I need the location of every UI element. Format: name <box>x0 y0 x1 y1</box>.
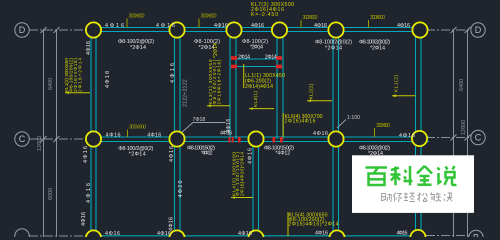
axis bubble B right (cut) <box>469 230 483 240</box>
KL3(1) underline <box>249 107 253 110</box>
svg-text:300X600: 300X600 <box>303 15 318 21</box>
rotated yellow block KL3(2) left of colC <box>208 59 223 104</box>
axis bubble B left (cut) <box>15 229 29 240</box>
svg-text:300X600: 300X600 <box>370 15 385 21</box>
svg-text:4Φ16: 4Φ16 <box>248 148 254 164</box>
axis D dashed line right <box>426 29 471 31</box>
yellow circle C-93 <box>86 131 101 146</box>
svg-text:*2Φ14: *2Φ14 <box>370 46 385 52</box>
解 <box>430 193 441 202</box>
column G <box>416 30 422 235</box>
svg-text:D: D <box>475 25 482 35</box>
olive 300X600 tick rowC bay1 <box>128 125 147 138</box>
yellow circle B-177 <box>169 230 184 240</box>
svg-text:300X600: 300X600 <box>129 14 145 20</box>
red marks beam row C <box>229 137 283 143</box>
svg-text:2Φ16Φ18+2Φ16): 2Φ16Φ18+2Φ16) <box>217 59 223 104</box>
svg-text:*2Φ14: *2Φ14 <box>325 46 342 52</box>
axis bubble C left <box>15 132 29 146</box>
svg-text:KL3(1): KL3(1) <box>253 91 259 107</box>
svg-text:4Φ18: 4Φ18 <box>105 71 111 88</box>
svg-text:2Φ16)4Φ16)*2Φ14: 2Φ16)4Φ16)*2Φ14 <box>289 222 339 228</box>
KL1(2) right underline <box>392 94 396 97</box>
yellow circle B-418 <box>410 230 425 240</box>
KL5 leader <box>287 212 289 236</box>
yellow circle C-177 <box>169 131 184 146</box>
svg-text:KL2(2): KL2(2) <box>309 83 315 99</box>
svg-text:2Φ16)4Φ20)*2Φ14: 2Φ16)4Φ20)*2Φ14 <box>239 152 245 196</box>
松 <box>417 193 427 202</box>
svg-text:4Φ16: 4Φ16 <box>251 23 264 29</box>
axis C dashed line left <box>29 138 91 140</box>
LL beam 1 <box>236 58 277 60</box>
svg-text:4Φ16: 4Φ16 <box>83 146 89 163</box>
axis bubble C right <box>471 130 485 144</box>
svg-text:6400: 6400 <box>459 79 465 91</box>
轻 <box>404 193 415 202</box>
dimension line left 2 <box>56 30 58 237</box>
dimension line right 1 <box>453 30 455 237</box>
yellow block KL6 <box>285 114 323 125</box>
svg-text:2122+2122: 2122+2122 <box>183 79 189 107</box>
svg-text:7Φ18: 7Φ18 <box>193 117 206 123</box>
科 <box>391 168 399 170</box>
yellow circle B-93 <box>86 230 101 240</box>
axis C dashed line right <box>426 137 471 139</box>
全 <box>417 166 425 174</box>
说 <box>438 168 440 171</box>
yellow circle C-419 <box>412 131 427 146</box>
KL4 underline <box>231 196 235 199</box>
yellow circle B-337 <box>329 230 344 240</box>
LL1 leader <box>243 64 245 88</box>
axis B dashed line right <box>426 235 469 237</box>
svg-text:4Φ16: 4Φ16 <box>397 23 410 29</box>
svg-text:4Φ16: 4Φ16 <box>397 231 408 237</box>
olive 300X600 tick top bay5 <box>369 15 386 28</box>
svg-text:12600: 12600 <box>37 136 43 151</box>
yellow circle B-256 <box>248 230 263 240</box>
svg-text:*2Φ14: *2Φ14 <box>250 45 263 51</box>
yellow circle C-256 <box>248 131 263 146</box>
axis D dashed line left <box>29 29 91 31</box>
svg-text:2Φ14: 2Φ14 <box>265 55 277 61</box>
svg-text:4Φ16: 4Φ16 <box>313 131 328 137</box>
beam row B (bottom, partly cut) <box>93 235 420 237</box>
svg-text:4Φ16: 4Φ16 <box>169 217 175 231</box>
yellow block LL1 <box>245 73 285 90</box>
svg-text:C: C <box>475 133 482 143</box>
red end marks LL beams <box>231 56 282 68</box>
LL beam 2 <box>233 66 280 68</box>
svg-text:D: D <box>19 25 26 35</box>
svg-text:4Φ16: 4Φ16 <box>315 231 328 237</box>
svg-text:4Φ16: 4Φ16 <box>314 23 327 29</box>
svg-text:6400: 6400 <box>48 78 54 90</box>
svg-text:4Φ16: 4Φ16 <box>399 133 415 139</box>
yellow circle D-279 <box>272 22 287 37</box>
svg-text:4Φ16: 4Φ16 <box>238 231 252 237</box>
watermark green text 百科全说 (hand-drawn strokes) <box>366 166 457 185</box>
yellow circle C-336 <box>328 131 343 146</box>
svg-text:2Φ16+2Φ14: 2Φ16+2Φ14 <box>78 58 84 92</box>
svg-text:1:100: 1:100 <box>347 115 360 121</box>
svg-text:300X600: 300X600 <box>129 125 146 131</box>
KL1 underline <box>65 91 69 94</box>
svg-text:4Φ16: 4Φ16 <box>105 231 120 237</box>
svg-text:*4Φ12: *4Φ12 <box>275 151 290 157</box>
svg-text:4Φ16: 4Φ16 <box>214 23 228 29</box>
svg-text:6000: 6000 <box>48 188 54 200</box>
axis B dashed line left <box>29 235 91 237</box>
watermark box <box>352 155 474 213</box>
olive 300X600 tick top bay2 <box>199 14 217 28</box>
dimension line left 1 <box>43 30 45 237</box>
yellow block KL5 bottom <box>289 213 339 228</box>
beam row D <box>93 28 420 32</box>
svg-text:4Φ16: 4Φ16 <box>226 119 232 133</box>
column B <box>175 30 181 235</box>
dim tick marks <box>41 27 471 142</box>
olive 300X600 tick rowC bay4 <box>375 123 391 137</box>
yellow circle D-234 <box>226 22 241 37</box>
svg-text:2Φ14: 2Φ14 <box>238 55 250 61</box>
你 <box>393 193 401 202</box>
svg-text:2Φ16)4Φ16: 2Φ16)4Φ16 <box>285 119 316 125</box>
yellow circle D-93 <box>86 22 101 37</box>
svg-text:B: B <box>473 233 479 237</box>
column C (upper half) <box>230 30 236 139</box>
svg-text:4Φ16: 4Φ16 <box>106 132 121 138</box>
svg-text:*2Φ14: *2Φ14 <box>213 43 219 58</box>
grey leader 7phi18 <box>181 123 226 134</box>
KL3(2) underline <box>207 105 211 108</box>
svg-text:K=-0.450: K=-0.450 <box>251 12 278 18</box>
svg-text:4Φ16: 4Φ16 <box>169 146 175 162</box>
svg-text:C: C <box>19 134 26 144</box>
rotated yellow block KL1(2) left of colA <box>64 58 84 92</box>
svg-text:4Φ16: 4Φ16 <box>147 132 161 138</box>
column F <box>333 30 339 235</box>
KL6 leader <box>282 113 284 137</box>
svg-text:KL1(2): KL1(2) <box>394 75 400 92</box>
svg-text:4Φ16: 4Φ16 <box>81 212 87 226</box>
axis bubble D left <box>15 23 29 37</box>
column D (upper half) <box>277 30 283 139</box>
column A <box>91 30 96 235</box>
svg-text:300X600: 300X600 <box>376 123 390 129</box>
beam row C <box>93 137 429 142</box>
svg-text:*4Φ12: *4Φ12 <box>201 151 213 157</box>
grey leader 1:100 <box>337 120 346 129</box>
column E (lower half) <box>253 133 259 235</box>
百 <box>366 166 388 169</box>
svg-text:4Φ16: 4Φ16 <box>86 41 92 55</box>
watermark gray text 助你轻松解决 (hand-drawn strokes) <box>381 193 452 202</box>
olive 300X600 tick top bay1 <box>127 14 145 28</box>
yellow circle D-420 <box>412 22 427 37</box>
olive 300X600 tick top bay4 <box>301 15 318 28</box>
助 <box>381 194 391 202</box>
KL2(2) underline <box>307 100 311 103</box>
svg-text:300X600: 300X600 <box>201 14 217 20</box>
svg-text:2Φ14)4Φ14: 2Φ14)4Φ14 <box>245 84 273 90</box>
axis bubble D right <box>471 23 485 37</box>
svg-text:*2Φ14: *2Φ14 <box>129 151 146 157</box>
yellow circle D-336 <box>328 22 343 37</box>
dimension line right 2 <box>467 30 469 237</box>
yellow circle D-177 <box>169 22 184 37</box>
yellow block KL7 top <box>251 2 294 18</box>
svg-text:*2Φ14: *2Φ14 <box>130 45 146 51</box>
rotated yellow block KL4(3) left of colE <box>231 152 245 196</box>
决 <box>444 193 452 202</box>
svg-text:12600: 12600 <box>461 120 467 135</box>
svg-text:4Φ20: 4Φ20 <box>178 181 184 198</box>
